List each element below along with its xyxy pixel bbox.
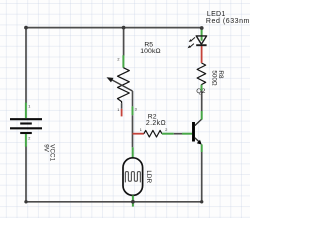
wire R2 to base <box>174 133 182 135</box>
potentiometer R5 bottom pin red end <box>121 109 123 117</box>
pin numbers faint <box>28 58 167 141</box>
transistor Q2 emitter diagonal <box>195 138 201 144</box>
wire bottom rail <box>26 201 202 203</box>
potentiometer R5 bottom pin stub <box>121 103 123 109</box>
svg-text:500Ω: 500Ω <box>211 70 218 86</box>
junction dot bottom-right corner <box>200 200 203 203</box>
label R8 500 <box>211 70 224 86</box>
LDR bottom green leg <box>132 195 134 206</box>
LDR meander element <box>125 172 140 183</box>
junction dot top-left corner <box>24 26 28 30</box>
LED1 anode green leg <box>201 28 203 40</box>
svg-text:2: 2 <box>165 128 167 132</box>
resistor R8 zigzag <box>197 63 206 85</box>
junction dot LED top <box>200 26 204 30</box>
svg-text:100kΩ: 100kΩ <box>140 48 161 55</box>
svg-text:2.2kΩ: 2.2kΩ <box>146 120 166 127</box>
resistor R2 zigzag <box>144 130 162 137</box>
LDR body pill <box>123 158 143 196</box>
wire pot branch stem <box>123 28 125 56</box>
svg-text:1: 1 <box>140 128 142 132</box>
wire top rail <box>26 27 202 29</box>
potentiometer R5 top leg <box>122 55 124 67</box>
svg-text:1: 1 <box>117 108 119 112</box>
potentiometer R5 zigzag <box>118 68 130 104</box>
wire LED to R8 red <box>201 46 203 63</box>
svg-text:2: 2 <box>117 58 119 62</box>
wiper green leg <box>132 106 134 115</box>
LDR top green leg <box>132 147 134 158</box>
battery VCC1 bottom leg <box>25 134 27 147</box>
svg-text:3: 3 <box>135 108 137 112</box>
battery VCC1 plates <box>10 119 42 133</box>
wire R2 red segment <box>133 133 144 135</box>
junction dot pot branch <box>122 26 126 30</box>
transistor Q2 emitter arrowhead <box>197 140 202 145</box>
wiper down lead <box>132 91 134 106</box>
resistor R2 right leg <box>162 133 174 135</box>
label LDR <box>145 170 152 183</box>
junction dot LDR bottom <box>131 200 135 204</box>
LED1 emission arrow 1 <box>191 37 195 40</box>
wire wiper to LDR <box>132 115 134 147</box>
svg-text:Red (633nm): Red (633nm) <box>206 18 250 25</box>
LED1 triangle <box>196 36 206 44</box>
wire emitter to bottom rail <box>201 152 203 202</box>
junction dot bottom-left corner <box>24 200 27 203</box>
wire collector to R8 <box>201 91 203 112</box>
wire left rail upper <box>25 28 27 103</box>
svg-text:LDR: LDR <box>145 170 152 183</box>
wire left rail lower <box>25 147 27 202</box>
svg-text:2: 2 <box>28 137 30 141</box>
potentiometer R5 wiper arrow <box>111 79 133 91</box>
svg-text:1: 1 <box>28 105 30 109</box>
svg-text:9V: 9V <box>42 144 49 153</box>
label VCC1 9V <box>42 144 55 161</box>
transistor Q2 base leg <box>182 133 192 135</box>
svg-text:LED1: LED1 <box>207 11 226 18</box>
transistor Q2 base bar <box>192 122 195 142</box>
transistor Q2 emitter green leg <box>201 144 203 152</box>
transistor Q2 collector diagonal <box>195 119 202 126</box>
LED1 cathode bar <box>196 44 206 46</box>
transistor Q2 collector green leg <box>201 111 203 120</box>
resistor R8 bottom green leg <box>201 85 203 91</box>
LED1 emission arrow 2 <box>190 44 194 47</box>
battery VCC1 top leg <box>25 103 27 119</box>
